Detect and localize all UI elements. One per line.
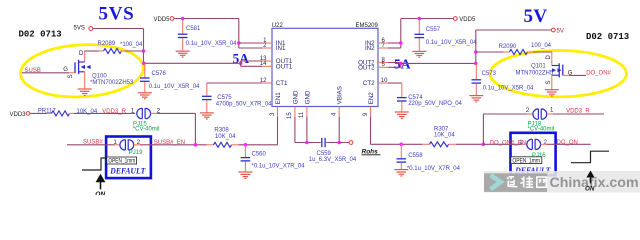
svg-text:OUT2: OUT2: [358, 65, 375, 72]
svg-text:C573: C573: [482, 71, 497, 77]
wire PJ15 pin2: [151, 113, 196, 144]
svg-text:D: D: [546, 55, 552, 60]
label OPEN_1mm left: [107, 157, 137, 165]
junction dot OUT1 at pins 13/14: [239, 62, 243, 66]
svg-text:S: S: [68, 74, 74, 78]
wire 5V horizontal: [476, 29, 552, 31]
svg-text:R2090: R2090: [499, 44, 517, 50]
junction dot PJ18 drop: [482, 143, 486, 147]
ground below C573: [469, 96, 483, 102]
svg-text:10K_04: 10K_04: [215, 134, 236, 140]
wire VDD3 to PR117: [30, 112, 52, 114]
svg-text:0.1u_10V_X5R_04: 0.1u_10V_X5R_04: [149, 84, 200, 90]
wire 5VS vertical: [143, 29, 145, 64]
resistor R2089: [84, 49, 143, 54]
svg-text:IN1: IN1: [276, 45, 286, 52]
op-amp U22 (EM5209 load switch IC): [272, 23, 379, 106]
pin 11 GND: [299, 90, 311, 118]
svg-text:1u_6.3V_X5R_04: 1u_6.3V_X5R_04: [309, 157, 357, 163]
watermark CJK wang: [537, 177, 546, 187]
capacitor C576: [140, 63, 150, 92]
svg-text:*CV-40mil: *CV-40mil: [528, 127, 555, 133]
pin 12 CT1: [260, 78, 288, 87]
ground below Q101: [545, 90, 559, 96]
wire PJ18 vertical: [482, 114, 484, 144]
svg-text:C575: C575: [217, 95, 232, 101]
pin 10 CT2: [363, 78, 388, 87]
junction dot GND11: [305, 141, 309, 145]
svg-text:*0.1u_10V_X7R_04: *0.1u_10V_X7R_04: [407, 166, 461, 172]
ground below C558: [394, 170, 408, 176]
box PJ16 (blue highlight): [511, 133, 556, 175]
resistor R307: [422, 142, 483, 147]
wire vertical joining pins 13/14: [240, 61, 242, 66]
svg-text:OPEN_1mm: OPEN_1mm: [512, 158, 540, 164]
svg-text:11: 11: [299, 111, 305, 118]
node VDD5 left terminal: [154, 17, 174, 23]
ground below C574: [395, 112, 409, 118]
watermark CJK xun: [507, 177, 517, 187]
svg-text:VDD5: VDD5: [154, 17, 171, 23]
wire PJ18 pin1 out: [547, 113, 604, 115]
capacitor C573: [472, 63, 482, 95]
ground below C575: [200, 113, 214, 119]
junction dot VBIAS: [337, 141, 341, 145]
ground below C581: [176, 51, 190, 57]
junction dot C581: [181, 17, 185, 21]
svg-text:10: 10: [381, 78, 388, 84]
svg-text:4700p_50V_X7R_04: 4700p_50V_X7R_04: [216, 102, 272, 108]
watermark logo box: [484, 173, 547, 192]
jumper PJ15: [131, 108, 161, 119]
svg-text:5VS: 5VS: [99, 4, 135, 25]
svg-text:DO_ON: DO_ON: [557, 140, 578, 146]
wire IN2 joins: [388, 19, 401, 49]
wire VDD5 left: [174, 18, 239, 20]
capacitor C559: [322, 138, 325, 147]
node VDD3 terminal: [10, 112, 30, 118]
pin 1 IN1: [262, 38, 286, 47]
resistor R2090: [476, 50, 552, 55]
arrow ON right (over watermark): [585, 171, 595, 193]
svg-text:C576: C576: [152, 71, 167, 77]
wire GND15 vertical: [294, 117, 296, 143]
wire VDD5 down to IN1: [238, 19, 240, 49]
svg-text:PJ19: PJ19: [129, 150, 143, 156]
ground below C576: [138, 93, 152, 99]
svg-text:CT1: CT1: [276, 80, 288, 87]
svg-text:0.1u_10V_X5R_04: 0.1u_10V_X5R_04: [483, 85, 534, 91]
node VDD5 right terminal: [453, 17, 476, 23]
svg-text:OPEN_1mm: OPEN_1mm: [108, 159, 135, 165]
junction dot OUT1 corner: [142, 62, 146, 66]
svg-text:EN1: EN1: [275, 92, 282, 105]
svg-text:ON: ON: [95, 191, 105, 195]
svg-text:VDD3_R: VDD3_R: [102, 109, 126, 115]
capacitor C557: [415, 20, 425, 51]
svg-text:U22: U22: [272, 23, 284, 29]
pin 4 VBIAS: [332, 86, 344, 117]
svg-text:15: 15: [287, 112, 293, 119]
wire 5V vertical: [475, 30, 477, 63]
wire EN2 row to R307: [371, 143, 423, 145]
junction dot C558: [400, 143, 404, 147]
wire VDD5 right: [401, 18, 454, 20]
capacitor C575: [202, 83, 212, 113]
wire GND row: [295, 142, 349, 144]
watermark chevron: [491, 175, 501, 189]
transistor Q100 (N-MOSFET): [75, 51, 91, 89]
wire leader step right: [571, 151, 609, 163]
svg-text:C558: C558: [408, 153, 423, 159]
label OPEN_1mm right: [511, 157, 542, 165]
junction dot R2089/5VS: [142, 49, 146, 53]
ground below C557: [412, 51, 426, 57]
wire OUT2 horizontal: [388, 63, 401, 68]
wire Q101 gate to DO_ON#: [563, 74, 586, 76]
svg-text:5V: 5V: [524, 6, 548, 27]
wire OUT1 stubs: [241, 61, 262, 66]
svg-text:5V: 5V: [557, 28, 564, 34]
junction dot VDD3_R/SUSB#_EN: [194, 143, 198, 147]
wire SUSB to gate: [22, 72, 75, 74]
pin 15 GND: [287, 90, 299, 119]
wire CT1: [207, 82, 272, 84]
svg-text:C581: C581: [186, 26, 201, 32]
wire PJ18 row left: [483, 113, 532, 115]
svg-text:S: S: [546, 80, 552, 84]
svg-text:*CV-40mil: *CV-40mil: [133, 126, 160, 132]
svg-text:EM5209: EM5209: [356, 23, 379, 29]
svg-text:Q100: Q100: [92, 74, 107, 80]
junction dot C560: [244, 143, 248, 147]
svg-text:10K_04: 10K_04: [434, 132, 455, 138]
svg-text:D02 0713: D02 0713: [19, 30, 62, 40]
svg-text:5VS: 5VS: [74, 25, 85, 31]
svg-text:PR117: PR117: [38, 108, 57, 114]
highlight ellipse right (around Q101): [490, 50, 626, 96]
svg-text:220p_50V_NPO_04: 220p_50V_NPO_04: [408, 101, 462, 107]
svg-text:GND: GND: [292, 90, 299, 104]
pin 5 OUT2: [358, 62, 388, 71]
svg-text:IN2: IN2: [365, 45, 375, 52]
wire EN2 vertical: [370, 117, 372, 144]
node VBIAS terminal circle: [349, 141, 353, 145]
capacitor C581: [178, 20, 188, 51]
junction dot OUT2: [399, 62, 403, 66]
transistor Q101 (N-MOSFET mirrored): [552, 52, 563, 89]
svg-text:C560: C560: [252, 152, 267, 158]
capacitor C558: [397, 144, 407, 169]
wire DO_ON#_EN to PJ16: [483, 143, 526, 145]
svg-text:10K_04: 10K_04: [77, 109, 98, 115]
svg-text:12: 12: [260, 78, 267, 84]
svg-text:VBIAS: VBIAS: [337, 86, 344, 104]
svg-text:C574: C574: [408, 95, 423, 101]
svg-text:D: D: [79, 51, 84, 57]
wire GND11 vertical: [306, 117, 308, 143]
junction dot IN2: [399, 41, 403, 45]
wire SUSB# row: [67, 144, 120, 146]
svg-text:R2089: R2089: [98, 41, 116, 47]
svg-text:DO_ON#: DO_ON#: [586, 71, 611, 77]
svg-text:*100_04: *100_04: [120, 42, 143, 48]
svg-text:SUSB#_EN: SUSB#_EN: [154, 140, 185, 146]
watermark CJK wei: [520, 176, 533, 187]
wire VBIAS vertical: [338, 117, 340, 143]
resistor PR117: [52, 111, 136, 116]
node 5V terminal: [551, 28, 563, 34]
pin 8 OUT2: [358, 57, 388, 66]
svg-text:*0.1u_10V_X7R_04: *0.1u_10V_X7R_04: [252, 163, 306, 169]
svg-text:EN2: EN2: [368, 92, 375, 105]
svg-text:DEFAULT: DEFAULT: [109, 165, 146, 175]
pin 14 OUT1: [260, 61, 293, 70]
pin 7 IN2: [365, 43, 388, 52]
wire OUT2 to 5V: [401, 62, 476, 64]
wire 5VS horizontal: [93, 28, 144, 30]
wire IN1 to VDD5: [239, 43, 262, 48]
jumper PJ18: [526, 108, 554, 120]
wire PJ16 pin2 out: [541, 143, 591, 145]
svg-text:*MTN7002ZH53: *MTN7002ZH53: [90, 80, 134, 86]
junction dot C573: [474, 62, 478, 66]
svg-text:D02 0713: D02 0713: [586, 32, 629, 42]
svg-text:Q101: Q101: [531, 63, 546, 69]
ground below Q100: [78, 89, 92, 95]
resistor R308: [207, 142, 278, 147]
wire PJ19 pin2 to R308: [134, 144, 207, 146]
pin 3 EN1: [270, 92, 282, 117]
wire OUT1 horizontal: [144, 62, 241, 64]
svg-text:MTN7002ZH5: MTN7002ZH5: [516, 71, 554, 77]
pin 2 IN1: [262, 43, 286, 52]
pin 9 EN2: [363, 92, 375, 117]
svg-text:0.1u_10V_X5R_04: 0.1u_10V_X5R_04: [426, 40, 477, 46]
label Rohs: [362, 149, 381, 156]
svg-text:OUT1: OUT1: [276, 63, 293, 70]
watermark band: [484, 171, 640, 192]
pin 6 IN2: [365, 38, 388, 47]
junction dot R2090: [474, 50, 478, 54]
svg-text:C557: C557: [426, 27, 441, 33]
svg-text:R308: R308: [214, 128, 229, 134]
svg-text:CT2: CT2: [363, 80, 375, 87]
jumper PJ19: [114, 140, 141, 151]
svg-text:0.1u_10V_X5R_04: 0.1u_10V_X5R_04: [186, 41, 237, 47]
pin 13 OUT1: [260, 56, 293, 65]
svg-text:GND: GND: [304, 90, 311, 104]
svg-text:VDD3_R: VDD3_R: [566, 109, 590, 115]
jumper PJ16: [519, 139, 547, 150]
node 5VS terminal: [74, 25, 93, 31]
wire leader step left: [82, 158, 107, 170]
svg-text:ON: ON: [585, 186, 595, 193]
highlight ellipse left (around Q100): [19, 42, 145, 100]
junction dot IN1: [237, 41, 241, 45]
box PJ19 (blue highlight): [106, 137, 151, 179]
wire CT2: [388, 83, 402, 97]
svg-text:VDD3: VDD3: [10, 112, 27, 118]
capacitor C560: [241, 145, 251, 172]
capacitor C574: [397, 98, 407, 112]
ground below C560: [238, 172, 252, 178]
svg-text:100_04: 100_04: [531, 43, 552, 49]
arrow ON left: [95, 174, 105, 198]
wire EN1 vertical: [277, 117, 279, 145]
svg-text:VDD5: VDD5: [459, 17, 476, 23]
junction dot C557: [418, 17, 422, 21]
